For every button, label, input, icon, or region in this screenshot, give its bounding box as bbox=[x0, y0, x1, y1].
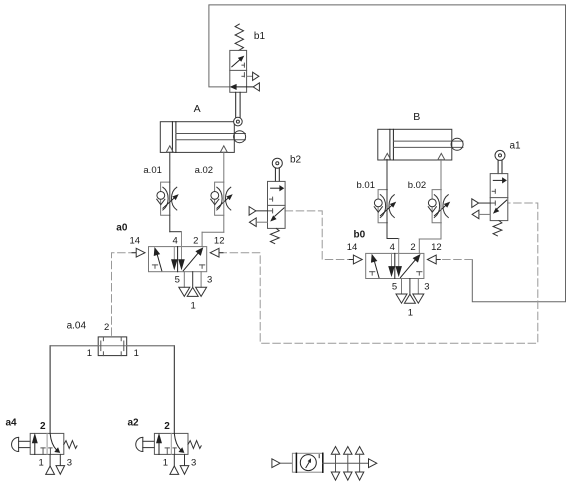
svg-text:1: 1 bbox=[87, 348, 92, 359]
svg-text:B: B bbox=[413, 111, 420, 123]
svg-text:b.01: b.01 bbox=[357, 180, 376, 191]
svg-text:a.02: a.02 bbox=[195, 165, 214, 176]
svg-text:b1: b1 bbox=[254, 31, 266, 42]
svg-text:a.04: a.04 bbox=[67, 321, 87, 332]
svg-text:a0: a0 bbox=[116, 223, 128, 234]
svg-text:A: A bbox=[194, 103, 201, 115]
svg-text:a.01: a.01 bbox=[143, 165, 162, 176]
svg-text:1: 1 bbox=[134, 348, 139, 359]
svg-text:b2: b2 bbox=[290, 155, 302, 166]
svg-text:a2: a2 bbox=[128, 418, 140, 429]
svg-text:2: 2 bbox=[104, 322, 109, 333]
svg-text:b.02: b.02 bbox=[408, 180, 427, 191]
svg-text:a4: a4 bbox=[6, 418, 18, 429]
svg-text:a1: a1 bbox=[510, 141, 522, 152]
svg-text:b0: b0 bbox=[354, 229, 366, 240]
